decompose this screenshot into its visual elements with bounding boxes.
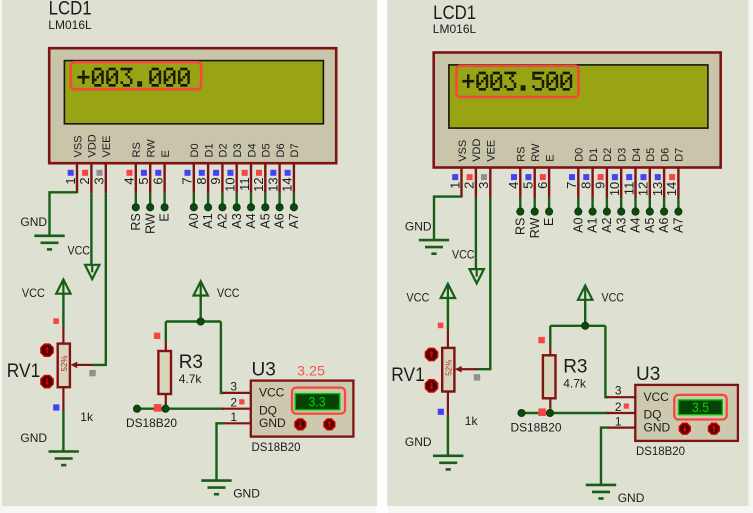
svg-text:LM016L: LM016L (48, 18, 92, 32)
svg-text:DS18B20: DS18B20 (636, 444, 685, 458)
svg-text:6: 6 (535, 182, 550, 189)
svg-text:52%: 52% (60, 355, 69, 371)
wire pin 6 to terminal E (right) (548, 198, 550, 210)
U3 temperature display bezel (left) (292, 388, 345, 414)
wire pin 4 to terminal RS (right) (519, 198, 521, 210)
svg-text:3: 3 (615, 384, 622, 398)
wire pin 5 to terminal RW (right) (534, 198, 536, 210)
wire junction down to R3 (right) (549, 326, 551, 347)
svg-text:GND: GND (405, 220, 432, 234)
DQ wire from DS18B20 terminal to U3 pin2 (left) (137, 408, 224, 410)
U3 decrement button (left) (295, 419, 306, 430)
resistor R3 body (left) (158, 351, 171, 394)
svg-text:A7: A7 (287, 213, 301, 228)
LCD pin 9 logic-state square (left) (213, 170, 219, 176)
RV1 top logic-state square (right) (438, 323, 444, 329)
terminal dot A2 (left) (219, 204, 226, 211)
LCD pin 4 stub (left) (135, 163, 137, 193)
LCD display LCD1 body (left) (49, 48, 336, 163)
svg-text:VDD: VDD (87, 134, 99, 157)
RV1 top pin stub (right) (447, 330, 449, 348)
LCD pin 9 stub (right) (606, 168, 608, 198)
wire VCC to RV1 top (green) (left) (62, 293, 64, 326)
LCD pin 12 logic-state square (left) (256, 170, 262, 176)
LCD pin 1 logic-state square (right) (452, 174, 458, 180)
wire VEE pin3 to RV1 wiper (left) (92, 193, 106, 365)
svg-text:11: 11 (237, 177, 252, 191)
wire pin 10 to terminal A3 (left) (235, 193, 237, 205)
RV1 wiper arrow (left) (77, 364, 92, 366)
svg-text:DQ: DQ (259, 403, 277, 417)
ground symbol below U3 (right) (586, 485, 616, 499)
terminal dot RS (right) (517, 208, 524, 215)
LCD pin 11 logic-state square (left) (242, 170, 248, 176)
LCD reading text +003.500 (right) (462, 72, 572, 91)
svg-text:13: 13 (265, 177, 280, 191)
wire U3 pin1 to ground (right) (601, 428, 609, 485)
DQ junction logic-state square (left) (154, 404, 162, 412)
svg-text:1k: 1k (465, 414, 479, 428)
terminal dot RW (left) (147, 204, 154, 211)
svg-text:VCC: VCC (68, 243, 91, 257)
RV1 wiper logic-state square (right) (474, 374, 480, 380)
svg-text:D3: D3 (232, 143, 244, 157)
wire U3 pin1 to ground (left) (217, 423, 225, 480)
LCD pin 1 logic-state square (left) (68, 170, 74, 176)
wire junction horizontal (right) (550, 325, 605, 327)
wire VEE pin3 to RV1 wiper (right) (477, 198, 491, 370)
svg-text:12: 12 (251, 177, 266, 191)
LCD pin 11 logic-state square (right) (626, 174, 632, 180)
wire VCC junction to U3 pin3 (left) (221, 322, 224, 393)
LCD1 screen (left) (64, 61, 323, 124)
LCD pin 3 logic-state square (left) (97, 170, 103, 176)
LCD pin 2 logic-state square (right) (467, 174, 473, 180)
temperature sensor U3 body (right) (635, 385, 738, 441)
svg-text:2: 2 (615, 400, 622, 414)
svg-text:E: E (158, 213, 172, 221)
LCD pin 4 stub (right) (519, 168, 521, 198)
wire R3 bottom to DQ net (right) (549, 408, 551, 413)
LCD pin 10 stub (left) (235, 163, 237, 193)
LCD display LCD1 body (right) (434, 53, 721, 168)
junction node R3/DQ (right) (546, 409, 553, 416)
svg-text:D7: D7 (289, 143, 301, 157)
svg-text:A5: A5 (258, 213, 272, 228)
LCD pin 2 logic-state square (left) (82, 170, 88, 176)
U3 pin 2 stub (left) (222, 408, 250, 410)
svg-text:D1: D1 (588, 148, 600, 162)
svg-text:A0: A0 (571, 218, 585, 233)
DQ junction logic-state square (right) (538, 408, 546, 416)
RV1 decrement button (left) (41, 376, 53, 388)
LCD pin 8 logic-state square (right) (583, 174, 589, 180)
potentiometer RV1 body (right) (442, 348, 454, 392)
svg-text:1: 1 (230, 410, 237, 424)
svg-text:A1: A1 (586, 218, 600, 233)
svg-text:DS18B20: DS18B20 (252, 440, 301, 454)
svg-text:7: 7 (180, 177, 195, 184)
svg-text:13: 13 (650, 182, 665, 196)
svg-text:D7: D7 (674, 148, 686, 162)
LCD pin 5 stub (left) (149, 163, 151, 193)
wire VSS pin1 to ground (left) (50, 192, 78, 236)
LCD pin 10 logic-state square (left) (227, 170, 233, 176)
svg-text:8: 8 (578, 182, 593, 189)
RV1 top pin stub (left) (62, 326, 64, 344)
LCD pin 8 logic-state square (left) (199, 170, 205, 176)
svg-text:GND: GND (259, 416, 286, 430)
wire pin 8 to terminal A1 (right) (591, 198, 593, 210)
LCD pin 12 logic-state square (right) (641, 174, 647, 180)
svg-text:E: E (544, 154, 556, 161)
LCD pin 6 logic-state square (left) (155, 170, 161, 176)
svg-text:1: 1 (447, 182, 462, 189)
R3 bottom pin stub (left) (165, 394, 167, 404)
LCD pin 12 stub (right) (649, 168, 651, 198)
wire pin 13 to terminal A6 (right) (663, 198, 665, 210)
svg-text:RW: RW (528, 217, 542, 238)
svg-text:GND: GND (405, 435, 432, 449)
svg-text:A0: A0 (187, 213, 201, 228)
LCD pin 3 stub (right) (489, 168, 491, 198)
terminal dot A2 (right) (603, 208, 610, 215)
wire pin 14 to terminal A7 (right) (677, 198, 679, 210)
svg-text:7: 7 (564, 182, 579, 189)
terminal dot A6 (left) (276, 204, 283, 211)
svg-text:D6: D6 (275, 143, 287, 157)
U3 pin 2 logic-state square (right) (624, 404, 629, 409)
svg-text:D4: D4 (246, 143, 258, 157)
ground symbol below RV1 (right) (433, 456, 463, 470)
svg-text:3.5: 3.5 (692, 399, 709, 415)
svg-text:GND: GND (20, 215, 47, 229)
ground symbol top-left (left) (34, 236, 64, 250)
svg-text:2: 2 (77, 177, 92, 184)
RV1 bottom pin stub (left) (62, 387, 64, 410)
VCC power terminal above RV1 (right) (441, 284, 455, 298)
LCD pin 13 logic-state square (left) (270, 170, 276, 176)
wire VCC junction to U3 pin3 (right) (605, 326, 608, 397)
svg-text:E: E (160, 150, 172, 157)
wire pin 7 to terminal A0 (left) (193, 193, 195, 205)
U3 increment button (left) (324, 419, 335, 430)
wire pin 12 to terminal A5 (left) (264, 193, 266, 205)
svg-text:4: 4 (122, 177, 137, 184)
LCD1 screen (right) (449, 65, 708, 128)
svg-text:5: 5 (136, 177, 151, 184)
svg-text:D4: D4 (631, 148, 643, 162)
svg-text:A3: A3 (230, 213, 244, 228)
svg-text:A7: A7 (672, 218, 686, 233)
LCD pin 8 stub (right) (591, 168, 593, 198)
svg-text:GND: GND (644, 421, 671, 435)
svg-text:E: E (542, 218, 556, 226)
terminal dot A4 (right) (632, 208, 639, 215)
svg-text:VCC: VCC (452, 248, 475, 262)
svg-text:A2: A2 (216, 213, 230, 228)
ground symbol below RV1 (left) (49, 452, 79, 466)
terminal dot E (right) (546, 208, 553, 215)
svg-text:6: 6 (150, 177, 165, 184)
svg-text:LCD1: LCD1 (49, 0, 92, 20)
LCD pin 10 stub (right) (620, 168, 622, 198)
LCD pin 9 stub (left) (221, 163, 223, 193)
RV1 wiper logic-state square (left) (89, 370, 95, 376)
U3 pin 1 stub (left) (222, 422, 250, 424)
terminal dot RS (left) (132, 204, 139, 211)
U3 pin 2 logic-state square (left) (239, 399, 244, 404)
wire pin 4 to terminal RS (left) (135, 193, 137, 205)
svg-text:D2: D2 (602, 148, 614, 162)
VCC power terminal (down arrow) for VDD (right) (470, 269, 484, 283)
LCD pin 7 logic-state square (right) (569, 174, 575, 180)
svg-text:2: 2 (462, 182, 477, 189)
terminal dot A7 (left) (290, 204, 297, 211)
svg-text:VSS: VSS (72, 135, 84, 157)
LCD pin 7 stub (right) (577, 168, 579, 198)
terminal dot A3 (right) (618, 208, 625, 215)
LCD pin 4 logic-state square (left) (127, 170, 133, 176)
LCD pin 2 stub (left) (90, 163, 92, 193)
svg-text:VCC: VCC (644, 390, 670, 404)
terminal dot A1 (right) (589, 208, 596, 215)
RV1 increment button (right) (425, 348, 437, 360)
svg-text:A3: A3 (614, 218, 628, 233)
temperature sensor U3 body (left) (251, 381, 354, 437)
wire VCC to RV1 top (green) (right) (447, 297, 449, 330)
LCD pin 1 stub (right) (460, 168, 462, 198)
RV1 bottom logic-state square (right) (438, 409, 444, 415)
svg-text:DS18B20: DS18B20 (126, 416, 177, 430)
LCD pin 11 stub (right) (634, 168, 636, 198)
LCD pin 13 stub (right) (663, 168, 665, 198)
U3 temperature display bezel (right) (674, 395, 726, 420)
R3 top pin stub (right) (549, 346, 551, 356)
RV1 bottom logic-state square (left) (53, 404, 59, 410)
svg-text:D5: D5 (645, 148, 657, 162)
wire pin 7 to terminal A0 (right) (577, 198, 579, 210)
resistor R3 body (right) (543, 355, 556, 398)
svg-text:2: 2 (230, 396, 237, 410)
LCD pin 7 stub (left) (193, 163, 195, 193)
wire pin 11 to terminal A4 (left) (250, 193, 252, 205)
svg-text:A4: A4 (629, 218, 643, 233)
left schematic sheet (2, 0, 377, 506)
LCD reading text +003.000 (left) (78, 68, 190, 87)
svg-text:A5: A5 (643, 218, 657, 233)
svg-text:52%: 52% (445, 360, 454, 376)
svg-text:D2: D2 (218, 143, 230, 157)
terminal dot RW (right) (531, 208, 538, 215)
terminal dot A3 (left) (233, 204, 240, 211)
terminal dot A6 (right) (661, 208, 668, 215)
terminal dot A7 (right) (675, 208, 682, 215)
svg-text:LM016L: LM016L (433, 22, 477, 36)
wire pin 12 to terminal A5 (right) (649, 198, 651, 210)
svg-text:RS: RS (129, 213, 143, 230)
wire pin 6 to terminal E (left) (163, 193, 165, 205)
svg-text:DS18B20: DS18B20 (511, 420, 562, 434)
LCD pin 13 logic-state square (right) (655, 174, 661, 180)
svg-text:GND: GND (618, 491, 645, 505)
LCD pin 3 stub (left) (105, 163, 107, 193)
LCD pin 4 logic-state square (right) (511, 174, 517, 180)
svg-text:RS: RS (131, 142, 143, 157)
ground symbol top-left (right) (419, 240, 449, 254)
R3 top logic-state square (left) (154, 333, 160, 339)
U3 temperature display (left) (295, 394, 340, 410)
svg-text:3: 3 (230, 379, 237, 393)
svg-text:D5: D5 (261, 143, 273, 157)
LCD pin 7 logic-state square (left) (185, 170, 191, 176)
terminal dot A5 (right) (646, 208, 653, 215)
U3 decrement button (right) (679, 423, 690, 434)
junction node R3/DQ (left) (162, 405, 169, 412)
VCC power terminal (down arrow) for VDD (left) (85, 265, 99, 279)
svg-text:VDD: VDD (471, 139, 483, 162)
svg-text:RW: RW (146, 139, 158, 158)
wire pin 5 to terminal RW (left) (149, 193, 151, 205)
svg-text:5: 5 (521, 182, 536, 189)
svg-text:9: 9 (208, 177, 223, 184)
svg-text:4.7k: 4.7k (179, 372, 203, 386)
svg-text:RV1: RV1 (7, 361, 41, 382)
LCD pin 10 logic-state square (right) (612, 174, 618, 180)
wire pin 13 to terminal A6 (left) (278, 193, 280, 205)
svg-text:GND: GND (233, 487, 260, 501)
wire VSS pin1 to ground (right) (434, 197, 462, 241)
RV1 wiper arrow (right) (462, 368, 477, 370)
wire VCC down to junction (left) (199, 295, 201, 322)
RV1 bottom pin stub (right) (447, 392, 449, 415)
wire pin 9 to terminal A2 (right) (606, 198, 608, 210)
svg-text:4.7k: 4.7k (563, 377, 587, 391)
svg-text:11: 11 (621, 182, 636, 196)
svg-text:RS: RS (516, 147, 528, 162)
wire pin 8 to terminal A1 (left) (207, 193, 209, 205)
svg-text:VCC: VCC (217, 286, 240, 300)
svg-text:10: 10 (223, 177, 238, 191)
svg-text:A2: A2 (600, 218, 614, 233)
VCC power terminal above R3 (left) (194, 281, 208, 295)
DS18B20 terminal dot (right) (518, 409, 525, 416)
DS18B20 terminal dot (left) (133, 405, 140, 412)
ground symbol below U3 (left) (201, 481, 231, 495)
right schematic sheet (387, 0, 748, 506)
svg-text:RW: RW (530, 143, 542, 162)
wire junction down to R3 (left) (165, 322, 167, 343)
R3 bottom pin stub (right) (549, 398, 551, 408)
wire pin 14 to terminal A7 (left) (293, 193, 295, 205)
svg-text:12: 12 (636, 182, 651, 196)
LCD pin 5 stub (right) (534, 168, 536, 198)
LCD pin 12 stub (left) (264, 163, 266, 193)
svg-text:4: 4 (506, 182, 521, 189)
LCD pin 8 stub (left) (207, 163, 209, 193)
R3 top logic-state square (right) (538, 337, 544, 343)
terminal dot A0 (left) (190, 204, 197, 211)
svg-text:1k: 1k (80, 410, 94, 424)
svg-text:RV1: RV1 (391, 365, 425, 386)
LCD pin 6 stub (left) (163, 163, 165, 193)
wire pin 10 to terminal A3 (right) (620, 198, 622, 210)
U3 pin 3 stub (right) (607, 396, 635, 398)
wire pin 11 to terminal A4 (right) (634, 198, 636, 210)
LCD pin 14 stub (left) (293, 163, 295, 193)
terminal dot A0 (right) (575, 208, 582, 215)
wire VDD pin2 to VCC terminal (right) (475, 198, 477, 270)
svg-text:DQ: DQ (644, 408, 662, 422)
svg-text:VEE: VEE (486, 140, 498, 162)
LCD pin 14 stub (right) (677, 168, 679, 198)
RV1 increment button (left) (41, 344, 53, 356)
svg-text:RW: RW (143, 213, 157, 234)
terminal dot A1 (left) (205, 204, 212, 211)
LCD reading highlight box (left) (71, 62, 201, 89)
svg-text:D1: D1 (203, 143, 215, 157)
svg-text:A4: A4 (244, 213, 258, 228)
svg-text:VCC: VCC (602, 291, 625, 305)
svg-text:VCC: VCC (22, 286, 45, 300)
LCD pin 13 stub (left) (278, 163, 280, 193)
svg-text:VCC: VCC (406, 290, 429, 304)
svg-text:3.25: 3.25 (297, 363, 325, 378)
LCD pin 1 stub (left) (76, 163, 78, 193)
svg-text:VCC: VCC (259, 386, 285, 400)
svg-text:U3: U3 (636, 364, 660, 385)
U3 pin 2 stub (right) (607, 412, 635, 414)
sheet divider highlight (376, 0, 388, 513)
terminal dot A4 (left) (247, 204, 254, 211)
svg-text:GND: GND (20, 431, 47, 445)
wire R3 bottom to DQ net (left) (165, 404, 167, 409)
svg-text:10: 10 (607, 182, 622, 196)
svg-text:LCD1: LCD1 (433, 3, 476, 24)
svg-text:3: 3 (92, 177, 107, 184)
svg-text:9: 9 (593, 182, 608, 189)
LCD pin 6 stub (right) (548, 168, 550, 198)
svg-text:D0: D0 (189, 143, 201, 157)
svg-text:U3: U3 (252, 360, 276, 381)
U3 increment button (right) (709, 423, 720, 434)
R3 top pin stub (left) (165, 342, 167, 352)
U3 pin 1 stub (right) (607, 426, 635, 428)
svg-text:D6: D6 (659, 148, 671, 162)
svg-text:VSS: VSS (457, 140, 469, 162)
svg-text:R3: R3 (563, 357, 587, 378)
svg-text:A6: A6 (273, 213, 287, 228)
svg-text:14: 14 (664, 182, 679, 196)
svg-text:3.3: 3.3 (309, 394, 326, 410)
LCD pin 14 logic-state square (right) (669, 174, 675, 180)
svg-text:1: 1 (615, 415, 622, 429)
VCC power terminal above R3 (right) (578, 286, 592, 300)
LCD pin 14 logic-state square (left) (285, 170, 291, 176)
wire RV1 bottom to ground (left) (62, 411, 64, 452)
junction node above R3 (left) (197, 318, 204, 325)
U3 pin 3 stub (left) (222, 392, 250, 394)
wire junction horizontal (left) (166, 320, 221, 322)
VCC power terminal above RV1 (left) (56, 279, 70, 293)
DQ wire from DS18B20 terminal to U3 pin2 (right) (522, 412, 609, 414)
LCD pin 6 logic-state square (right) (540, 174, 546, 180)
terminal dot A5 (left) (262, 204, 269, 211)
LCD reading highlight box (right) (457, 66, 579, 97)
RV1 decrement button (right) (425, 380, 437, 392)
svg-text:14: 14 (280, 177, 295, 191)
U3 temperature display (right) (679, 400, 723, 415)
